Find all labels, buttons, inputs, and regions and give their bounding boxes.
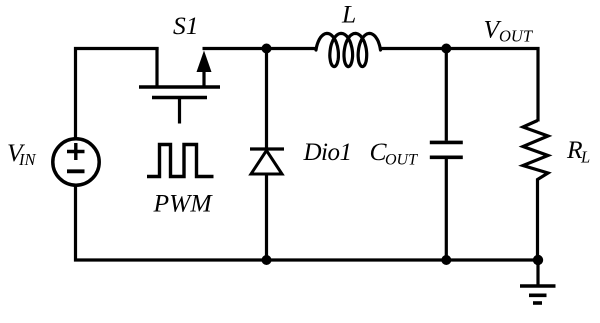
transistor S1 gate stem — [178, 98, 181, 124]
ground symbol bar 1 — [520, 284, 556, 288]
node ground junction dot — [533, 255, 543, 265]
wire top rail middle — [203, 47, 317, 50]
svg-text:L: L — [580, 148, 590, 167]
svg-text:L: L — [341, 0, 356, 29]
capacitor COUT bottom lead — [445, 158, 448, 260]
VIN plus sign — [67, 143, 85, 160]
capacitor COUT top lead — [445, 49, 448, 141]
svg-text:OUT: OUT — [385, 152, 418, 169]
PWM square wave symbol — [147, 145, 214, 177]
svg-text:OUT: OUT — [499, 27, 534, 46]
ground symbol bar 3 — [533, 301, 542, 305]
wire top rail right — [380, 49, 538, 122]
diode Dio1 bottom lead — [265, 174, 268, 260]
svg-text:S1: S1 — [173, 11, 199, 40]
resistor RL zigzag — [523, 121, 548, 261]
node capacitor-ground junction dot — [441, 255, 451, 265]
transistor S1 source lead — [155, 47, 158, 86]
wire top rail left — [76, 49, 159, 141]
ground symbol stem — [536, 260, 539, 286]
node inductor-capacitor junction dot — [441, 44, 451, 54]
capacitor COUT bottom plate — [430, 156, 463, 160]
voltage source VIN circle — [53, 139, 99, 185]
capacitor COUT top plate — [430, 141, 463, 145]
ground symbol bar 2 — [529, 293, 547, 297]
transistor S1 gate bar — [152, 96, 207, 99]
inductor L coil — [316, 33, 381, 66]
node diode-ground junction dot — [262, 255, 272, 265]
wire bottom rail — [267, 258, 539, 261]
svg-text:IN: IN — [18, 150, 36, 169]
svg-text:PWM: PWM — [153, 189, 214, 218]
diode Dio1 cathode bar — [250, 147, 284, 150]
transistor S1 drain line — [202, 62, 205, 87]
diode Dio1 top lead — [265, 49, 268, 150]
transistor S1 channel bar — [139, 85, 220, 88]
svg-text:Dio1: Dio1 — [303, 139, 352, 166]
node switch-diode junction dot — [262, 44, 272, 54]
wire VIN bottom lead — [76, 184, 268, 260]
transistor S1 arrow head — [197, 51, 212, 73]
VIN minus sign — [67, 169, 85, 173]
diode Dio1 triangle — [251, 151, 282, 175]
